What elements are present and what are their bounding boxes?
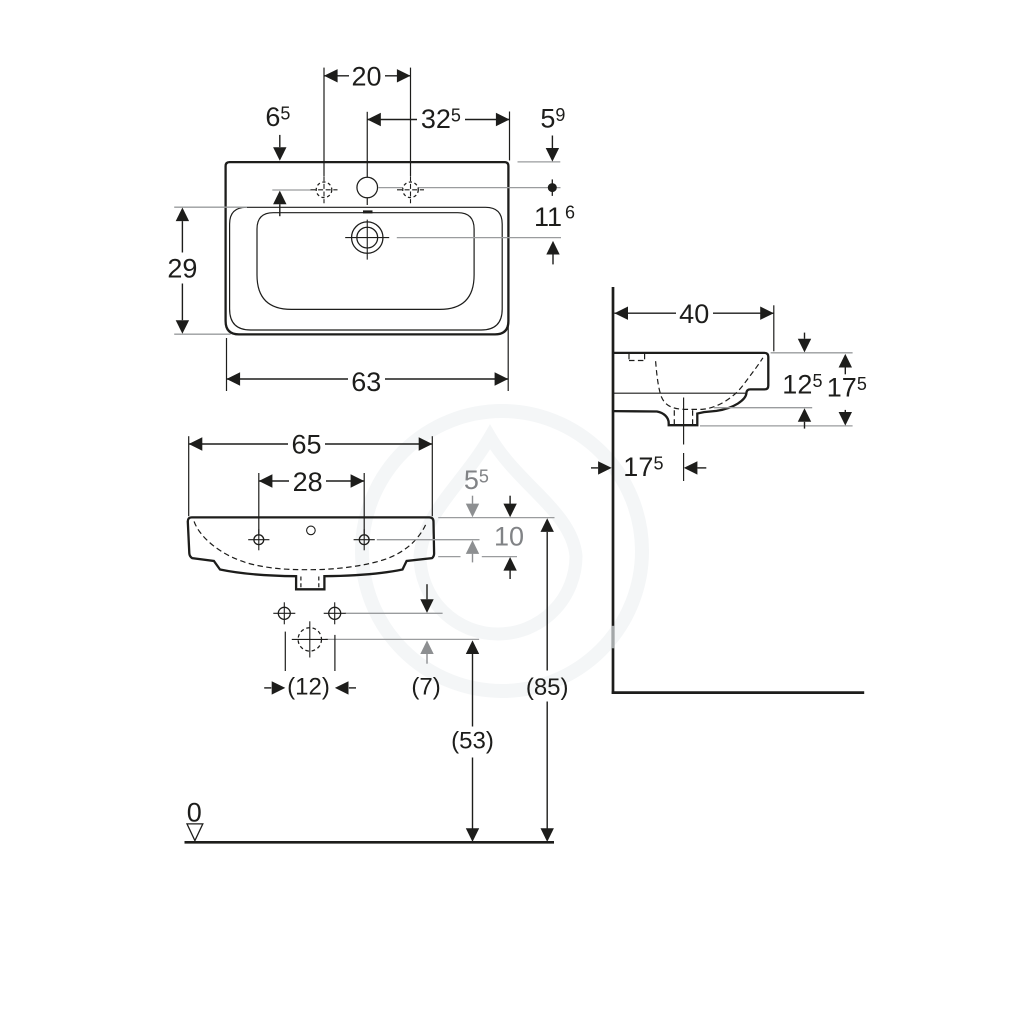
svg-text:(7): (7) [411,674,440,701]
svg-text:6: 6 [265,102,280,132]
svg-text:12: 12 [782,369,812,399]
svg-text:5: 5 [280,104,290,124]
svg-text:5: 5 [654,454,664,474]
svg-text:65: 65 [291,429,321,459]
svg-text:17: 17 [827,372,857,402]
svg-text:5: 5 [451,106,461,126]
svg-text:9: 9 [555,105,565,125]
svg-text:0: 0 [187,797,202,827]
svg-text:(53): (53) [451,728,494,755]
svg-text:5: 5 [479,466,489,486]
svg-text:5: 5 [857,374,867,394]
svg-text:20: 20 [351,61,381,91]
svg-text:40: 40 [679,299,709,329]
svg-text:5: 5 [813,371,823,391]
svg-text:17: 17 [623,452,653,482]
svg-text:63: 63 [351,367,381,397]
svg-text:(12): (12) [287,674,330,701]
svg-text:6: 6 [565,203,575,223]
svg-text:5: 5 [540,103,555,133]
svg-text:32: 32 [421,104,451,134]
svg-text:5: 5 [464,465,479,495]
svg-text:29: 29 [167,253,197,283]
svg-text:28: 28 [293,467,323,497]
svg-text:10: 10 [494,522,524,552]
svg-text:(85): (85) [526,674,569,701]
svg-text:11: 11 [534,202,562,232]
